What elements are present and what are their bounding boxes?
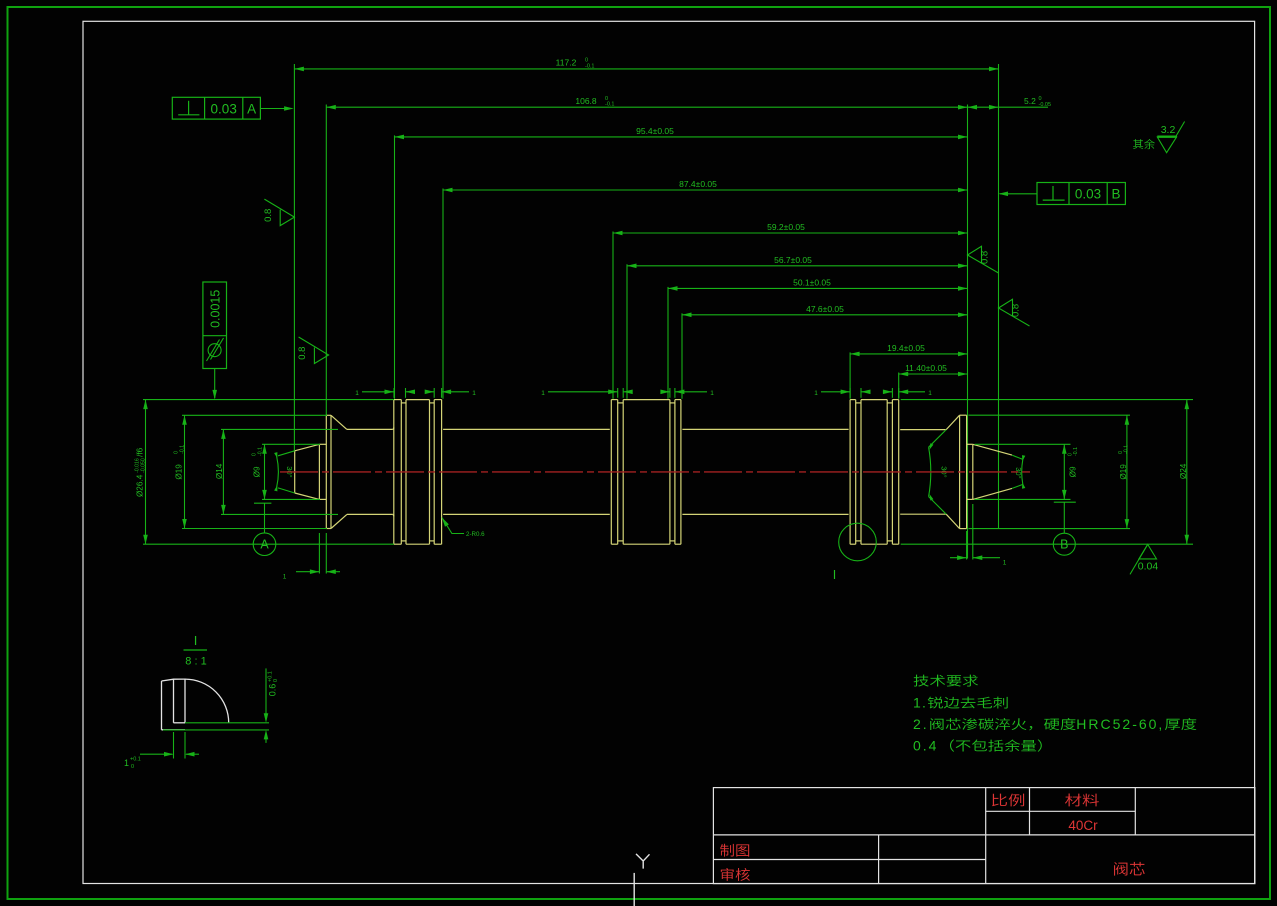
svg-text:0.8: 0.8 [263, 209, 274, 222]
extension line x=850.1 [849, 352, 851, 398]
svg-text:Ø14: Ø14 [215, 463, 224, 479]
svg-text:40Cr: 40Cr [1068, 818, 1098, 833]
extension line x=613.0 [612, 232, 614, 399]
svg-text:19.4±0.05: 19.4±0.05 [887, 343, 925, 353]
neck 3 [682, 429, 848, 514]
groove width dim 1 #5 [814, 388, 870, 398]
svg-text:30°: 30° [1014, 467, 1023, 478]
svg-text:Ø9: Ø9 [253, 466, 262, 477]
right tip 30 deg [1012, 455, 1025, 489]
svg-text:1: 1 [355, 390, 359, 397]
svg-text:1: 1 [124, 758, 129, 768]
svg-text:/f6: /f6 [136, 447, 145, 457]
svg-text:A: A [247, 101, 256, 116]
roughness 0.8 #2 [297, 337, 329, 364]
svg-text:Ø26.4: Ø26.4 [136, 474, 145, 497]
svg-text:1: 1 [814, 390, 818, 397]
dimension 117.2 [294, 58, 998, 72]
svg-text:87.4±0.05: 87.4±0.05 [679, 179, 717, 189]
phi19 collar [326, 415, 347, 528]
extension line left B [325, 105, 327, 416]
ext lines phi9 left [262, 444, 320, 499]
extension line x=443.0 [442, 189, 444, 399]
width dim 1 below right [950, 504, 1007, 567]
dimension phi9 right [1062, 444, 1079, 499]
svg-text:1: 1 [928, 390, 932, 397]
svg-text:1: 1 [710, 390, 714, 397]
land 1 with grooves [394, 400, 442, 545]
dimension 56.7 [627, 255, 968, 268]
detail dim 0.6 [163, 668, 279, 743]
svg-text:3.2: 3.2 [1161, 124, 1176, 136]
technical requirements text [913, 675, 1196, 754]
general roughness 3.2 [1133, 122, 1185, 153]
detail circle I [833, 523, 877, 582]
svg-text:HRC52-60,: HRC52-60, [1076, 716, 1164, 732]
left cone [295, 444, 327, 499]
svg-text:0.6: 0.6 [268, 684, 278, 697]
centerline [280, 471, 1030, 473]
svg-text:B: B [1111, 187, 1120, 202]
svg-text:0: 0 [1039, 96, 1042, 102]
datum B [1053, 502, 1076, 555]
svg-text:I: I [194, 633, 198, 648]
groove width dim 1 #2 [425, 388, 476, 398]
groove width dim 1 #4 [660, 388, 714, 398]
neck 2 [443, 429, 610, 514]
neck 4 [900, 430, 946, 515]
width dim 1 below left [283, 533, 340, 581]
extension line x=682.0 [681, 313, 683, 399]
svg-text:-0.05: -0.05 [1039, 102, 1052, 108]
svg-text:-0.1: -0.1 [1073, 447, 1079, 456]
dimension 87.4 [443, 179, 968, 192]
extension line x=394.5 [394, 135, 396, 398]
dimension phi26.4 f6 [135, 400, 148, 545]
ext lines phi26.4 [143, 400, 394, 545]
datum A [253, 503, 276, 555]
ext lines phi14 [221, 429, 338, 514]
extension line right A [967, 105, 969, 559]
dimension 19.4 [850, 343, 967, 356]
phi24 rim [946, 415, 966, 528]
svg-text:5.2: 5.2 [1024, 96, 1036, 106]
svg-text:I: I [833, 568, 836, 582]
svg-text:95.4±0.05: 95.4±0.05 [636, 126, 674, 136]
svg-text:0.0015: 0.0015 [209, 290, 223, 328]
svg-text:0.8: 0.8 [297, 347, 308, 360]
groove width dim 1 #1 [355, 388, 415, 398]
svg-text:0.04: 0.04 [1138, 561, 1159, 573]
svg-text:8 : 1: 8 : 1 [185, 656, 206, 668]
svg-text:0: 0 [131, 764, 134, 770]
roughness 0.8 #3 [968, 246, 999, 273]
extension line right B [998, 64, 1000, 528]
svg-text:47.6±0.05: 47.6±0.05 [806, 304, 844, 314]
svg-text:117.2: 117.2 [556, 58, 577, 68]
ext lines phi9 right [975, 444, 1071, 499]
svg-text:1.: 1. [913, 695, 927, 711]
right cone [967, 444, 1012, 499]
detail view label I 8:1 [184, 633, 208, 668]
svg-text:0: 0 [273, 679, 279, 682]
dimension 95.4 [395, 126, 968, 139]
dimension phi14 [215, 429, 226, 514]
perpendicularity frame 0.03 A [172, 97, 293, 119]
neck 1 [347, 427, 394, 516]
runout 0.04 flag [1130, 544, 1158, 574]
svg-text:-0.1: -0.1 [179, 445, 185, 454]
svg-text:Ø24: Ø24 [1179, 463, 1188, 479]
dimension 5.2 [968, 96, 1052, 110]
land 2 with grooves [611, 400, 681, 545]
svg-text:Ø19: Ø19 [1119, 464, 1128, 480]
groove width dim 1 #3 [541, 388, 633, 398]
svg-text:-0.1: -0.1 [257, 447, 263, 456]
svg-text:50.1±0.05: 50.1±0.05 [793, 277, 831, 287]
title block labels [720, 794, 1144, 881]
svg-text:1: 1 [1003, 560, 1007, 567]
dimension 106.8 [326, 96, 967, 110]
ext lines phi19 right [969, 415, 1131, 528]
svg-text:1: 1 [472, 390, 476, 397]
right seal cone 30 deg [928, 430, 948, 515]
svg-text:59.2±0.05: 59.2±0.05 [767, 222, 805, 232]
svg-text:Ø9: Ø9 [1068, 466, 1077, 477]
svg-text:106.8: 106.8 [575, 96, 597, 106]
svg-text:2.: 2. [913, 716, 929, 732]
detail view groove profile [162, 679, 229, 730]
dimension phi9 left [252, 444, 267, 499]
ext lines phi24 [901, 400, 1193, 545]
svg-text:A: A [260, 538, 269, 552]
svg-text:-0.1: -0.1 [1124, 445, 1130, 454]
svg-text:-0.1: -0.1 [605, 102, 614, 108]
dimension 47.6 [682, 304, 968, 317]
svg-text:2-R0.6: 2-R0.6 [466, 531, 485, 538]
svg-text:-0.1: -0.1 [585, 63, 594, 69]
dimension phi19 right [1118, 415, 1130, 528]
svg-text:0.03: 0.03 [211, 101, 237, 116]
groove width dim 1 #6 [883, 388, 932, 398]
svg-text:Ø19: Ø19 [175, 464, 184, 480]
svg-text:0.4: 0.4 [913, 738, 938, 754]
svg-text:1: 1 [283, 574, 287, 581]
svg-text:1: 1 [541, 390, 545, 397]
UCS icon Y axis [634, 854, 649, 906]
svg-text:+0.1: +0.1 [130, 757, 141, 763]
dimension 59.2 [613, 222, 968, 235]
cylindricity frame 0.0015 [203, 282, 227, 399]
svg-text:-0.050: -0.050 [140, 458, 146, 473]
ext lines phi19 left [182, 415, 327, 528]
title block grid [713, 788, 1255, 884]
dimension 50.1 [668, 277, 968, 290]
svg-text:B: B [1060, 538, 1068, 552]
land 3 with grooves [850, 400, 899, 545]
extension line x=668.0 [667, 287, 669, 399]
dimension phi19 left [174, 415, 187, 528]
svg-text:0.8: 0.8 [1010, 304, 1021, 317]
detail dim 1 [124, 732, 199, 770]
extension line left A [293, 64, 295, 451]
dimension 11.40 [899, 363, 968, 376]
extension line x=627.0 [626, 264, 628, 399]
svg-text:0.03: 0.03 [1075, 187, 1101, 202]
leader 2-R0.6 [440, 516, 485, 538]
perpendicularity frame 0.03 B [999, 183, 1126, 205]
extension line x=898.7 [898, 373, 900, 399]
svg-text:11.40±0.05: 11.40±0.05 [905, 363, 947, 373]
svg-text:56.7±0.05: 56.7±0.05 [774, 255, 812, 265]
left tip 30 deg [274, 451, 295, 493]
dimension phi24 [1179, 400, 1189, 545]
roughness 0.8 #1 [263, 199, 295, 226]
roughness 0.8 #4 [999, 299, 1030, 326]
svg-text:0.8: 0.8 [979, 251, 990, 264]
